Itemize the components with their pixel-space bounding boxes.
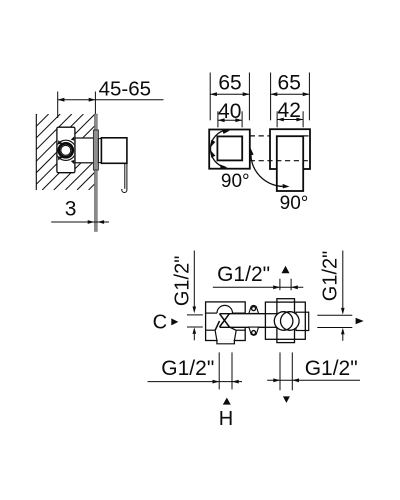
svg-text:40: 40 xyxy=(218,100,241,123)
svg-text:42: 42 xyxy=(278,99,301,122)
svg-text:90°: 90° xyxy=(280,193,309,214)
svg-text:G1/2": G1/2" xyxy=(305,357,358,380)
svg-text:G1/2": G1/2" xyxy=(319,251,341,301)
svg-text:H: H xyxy=(219,408,233,430)
svg-text:3: 3 xyxy=(65,198,77,221)
svg-text:90°: 90° xyxy=(221,171,250,192)
svg-text:G1/2": G1/2" xyxy=(161,357,214,380)
svg-text:G1/2": G1/2" xyxy=(217,263,270,286)
svg-text:45-65: 45-65 xyxy=(99,78,151,101)
svg-text:C: C xyxy=(153,311,167,333)
svg-text:G1/2": G1/2" xyxy=(171,256,193,306)
svg-text:65: 65 xyxy=(278,71,301,94)
svg-text:65: 65 xyxy=(218,71,241,94)
